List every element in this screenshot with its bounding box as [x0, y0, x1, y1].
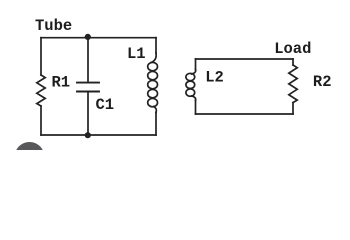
- resistor R1: [37, 75, 45, 106]
- svg-text:L2: L2: [205, 68, 224, 86]
- svg-text:C1: C1: [96, 96, 115, 114]
- resistor R2: [289, 65, 297, 103]
- wire bottom of tube tank loop: [41, 134, 156, 136]
- inductor L2: [186, 70, 196, 101]
- wire left lower segment below L2: [195, 101, 197, 115]
- wire left upper segment above L2: [195, 59, 197, 70]
- svg-text:R1: R1: [52, 73, 71, 91]
- svg-text:R2: R2: [313, 73, 332, 91]
- capacitor C1 plates: [77, 82, 99, 84]
- wire left upper segment: [40, 38, 42, 75]
- svg-text:L1: L1: [127, 45, 146, 63]
- capacitor C1 top lead: [87, 38, 89, 82]
- wire right lower segment below L1: [155, 113, 157, 136]
- wire top of tube tank loop: [41, 37, 156, 39]
- decorative dark circle bottom-left: [15, 142, 45, 172]
- wire right upper segment above L1: [155, 38, 157, 53]
- wire right lower segment below R2: [292, 103, 294, 114]
- inductor L1: [148, 53, 158, 113]
- wire bottom of load loop: [196, 113, 294, 115]
- capacitor C1 bottom lead: [87, 92, 89, 135]
- node junction dot bottom: [85, 132, 91, 138]
- wire top of load loop: [196, 58, 294, 60]
- svg-text:Load: Load: [274, 40, 311, 58]
- svg-text:Tube: Tube: [35, 17, 72, 35]
- node junction dot top: [85, 34, 91, 40]
- wire left lower segment: [40, 106, 42, 135]
- wire right upper segment above R2: [292, 59, 294, 65]
